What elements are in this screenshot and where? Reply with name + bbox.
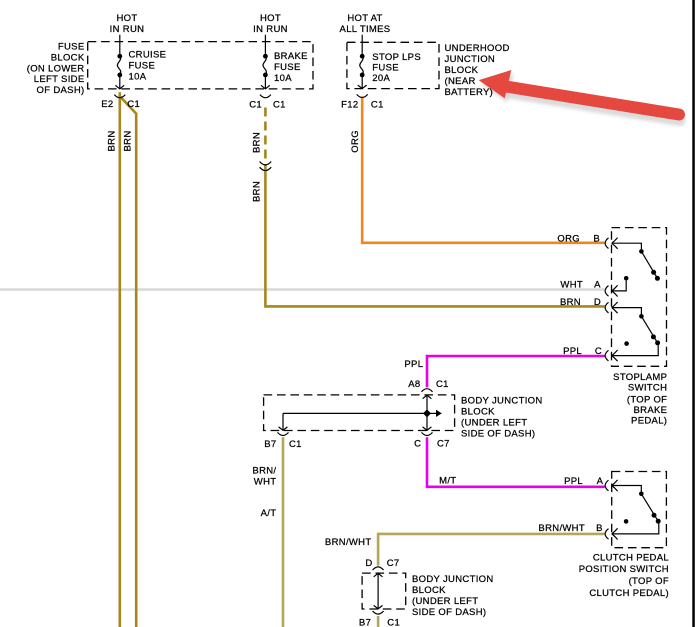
connector cup below stop lps fuse [357,94,368,97]
svg-text:20A: 20A [372,73,390,84]
lever end dot clutch [652,513,657,518]
label ORG vertical [350,130,361,153]
svg-text:CRUISE: CRUISE [129,50,167,61]
svg-text:C: C [595,346,602,357]
bjb2 internal vertical [377,573,379,609]
svg-text:B: B [596,523,603,534]
window border right edge [692,0,695,627]
svg-text:BLOCK: BLOCK [445,65,479,76]
free contact dot clutch [624,519,629,524]
svg-text:UNDERHOOD: UNDERHOOD [445,43,510,54]
wire PPL from bjb1 C to clutch pedal switch pin A [427,437,605,487]
svg-text:WHT: WHT [560,279,583,290]
lever end dot upper [651,270,656,275]
svg-text:PPL: PPL [404,359,423,370]
junction arrow right [430,412,436,414]
svg-text:BRN: BRN [560,297,581,308]
svg-text:M/T: M/T [439,475,456,486]
svg-text:FUSE: FUSE [129,61,156,72]
svg-text:BRN/WHT: BRN/WHT [538,523,585,534]
underhood junction block box (dashed) [347,42,439,88]
stoplamp switch label [613,372,667,426]
fuse CRUISE label [129,50,167,83]
svg-text:B7: B7 [359,618,371,627]
svg-text:C1: C1 [371,100,384,111]
red callout arrow shadow [481,74,680,120]
svg-text:BLOCK: BLOCK [461,406,495,417]
svg-text:BRN: BRN [107,130,118,151]
svg-text:FUSE: FUSE [274,62,301,73]
pivot dot lower switch [639,314,644,319]
svg-text:BRAKE: BRAKE [633,405,667,416]
connector cup above bjb1 [422,389,433,392]
svg-text:C1: C1 [273,100,286,111]
connector cup above bjb2 [373,567,384,570]
svg-text:C1: C1 [127,99,140,110]
label BRN (dashed section) [252,132,263,153]
svg-text:BRN/: BRN/ [252,466,276,477]
arrow out of bjb1 left [279,427,288,431]
svg-text:BLOCK: BLOCK [412,585,446,596]
svg-text:C7: C7 [437,438,450,449]
contact dot lower [655,340,660,345]
bjb1 internal vertical left exit [282,413,284,430]
connector arrow into bjb2 [374,573,383,577]
connector pin A stoplamp [605,285,617,296]
svg-text:C1: C1 [387,618,400,627]
svg-text:HOT: HOT [116,13,137,24]
svg-text:B: B [593,233,600,244]
svg-text:ORG: ORG [350,130,361,153]
svg-text:BATTERY): BATTERY) [445,87,494,98]
svg-text:(TOP OF: (TOP OF [629,576,669,587]
svg-text:D: D [594,297,601,308]
svg-text:10A: 10A [274,73,292,84]
body junction block 1 box (dashed) [264,395,455,431]
free contact dot lower switch [624,341,629,346]
svg-text:C1: C1 [249,100,262,111]
connector pin D stoplamp [605,302,617,313]
switch lever upper [641,251,657,278]
svg-text:LEFT SIDE: LEFT SIDE [34,74,85,85]
svg-text:CLUTCH PEDAL: CLUTCH PEDAL [593,552,669,563]
link from lower contact to pin C [612,345,658,356]
svg-text:C7: C7 [387,558,400,569]
connector cup below brake fuse [260,95,271,98]
label BRN (solid section) [252,181,263,202]
clutch pedal position switch box (dashed) [612,472,667,548]
svg-text:CLUTCH PEDAL): CLUTCH PEDAL) [589,588,669,599]
stoplamp switch fixed contact from pin A [612,281,626,291]
svg-text:F12: F12 [341,100,358,111]
wire WHT from off-page left to stoplamp switch pin A [0,288,605,291]
connector pin B stoplamp [605,238,617,249]
connector arrow out of brake fuse [261,85,270,89]
svg-text:STOP LPS: STOP LPS [372,52,421,63]
svg-text:SIDE OF DASH): SIDE OF DASH) [461,428,535,439]
clutch switch contact from pin A [612,486,642,492]
contact dot pin A [624,276,629,281]
svg-text:BODY JUNCTION: BODY JUNCTION [461,395,543,406]
cup below bjb1 left [278,432,289,435]
wire BRN from cruise fuse E2 straight down [119,92,122,627]
wire BRN/WHT from clutch pin B to bjb2 [378,534,605,566]
fuse STOP LPS FUSE 20A [360,35,365,89]
red callout arrow [479,70,679,115]
stoplamp switch lower contact from pin D [612,308,642,315]
svg-text:IN RUN: IN RUN [110,24,145,35]
wire PPL from stoplamp pin C to body junction block [427,356,605,387]
svg-text:A/T: A/T [261,508,277,519]
fuse BRAKE FUSE 10A [263,35,268,89]
svg-text:BRN/WHT: BRN/WHT [325,537,372,548]
switch lever lower [641,316,657,343]
label BRN wire2 [123,130,134,151]
stoplamp switch upper contact from pin B [612,243,642,249]
svg-text:C: C [414,438,421,449]
connector arrow out of cruise fuse [115,85,124,89]
wire BRN/WHT from bjb1 B7 down (A/T) [282,437,285,627]
svg-text:B7: B7 [264,439,276,450]
svg-text:(UNDER LEFT: (UNDER LEFT [412,596,478,607]
fuse CRUISE FUSE 10A [117,35,122,89]
in-line connector on brake wire [260,162,272,171]
switch lever clutch [641,494,658,521]
svg-text:10A: 10A [129,71,147,82]
pivot dot upper switch [639,249,644,254]
cup below bjb1 mid [422,432,433,435]
svg-text:IN RUN: IN RUN [253,24,288,35]
wire BRN dashed from brake fuse [264,108,267,160]
svg-text:POSITION SWITCH: POSITION SWITCH [579,564,669,575]
junction dot bjb1 [423,409,431,417]
svg-text:E2: E2 [101,99,113,110]
wire BRN from in-line connector to stoplamp pin D [265,164,604,306]
svg-text:JUNCTION: JUNCTION [445,54,496,65]
svg-text:BLOCK: BLOCK [51,52,85,63]
cup below bjb2 [373,611,384,614]
underhood junction block label [445,43,510,98]
svg-text:C1: C1 [436,379,449,390]
svg-text:PPL: PPL [564,476,583,487]
svg-text:SIDE OF DASH): SIDE OF DASH) [412,607,486,618]
svg-text:(NEAR: (NEAR [445,76,476,87]
arrow out of bjb1 mid [423,427,432,431]
label BRN wire1 [107,130,118,151]
svg-text:OF DASH): OF DASH) [37,85,85,96]
connector cup below cruise fuse [114,95,125,98]
svg-text:BRN: BRN [123,130,134,151]
fuse STOP LPS label [372,52,421,84]
svg-text:(TOP OF: (TOP OF [627,394,667,405]
svg-text:BRN: BRN [252,132,263,153]
svg-text:PPL: PPL [563,346,582,357]
svg-text:BRN: BRN [252,181,263,202]
connector pin C stoplamp [605,350,617,361]
lever end dot lower [651,334,656,339]
svg-text:ORG: ORG [557,233,580,244]
svg-text:HOT AT: HOT AT [347,13,382,24]
svg-text:D: D [365,558,372,569]
body junction block 1 label [461,395,543,439]
body junction block 2 box (dashed) [362,573,406,609]
link from clutch contact to pin B [612,523,659,534]
svg-text:BRAKE: BRAKE [274,51,308,62]
contact dot clutch [656,519,661,524]
pivot dot clutch [639,492,644,497]
wire BRN/WHT out of bjb2 [377,616,380,627]
svg-text:HOT: HOT [260,13,281,24]
svg-text:A8: A8 [408,379,420,390]
fuse block label [27,42,85,97]
svg-text:C1: C1 [289,439,302,450]
svg-text:FUSE: FUSE [58,42,85,53]
connector clutch pin A [605,480,617,491]
fuse BRAKE label [274,51,308,84]
bjb1 internal horizontal [283,412,427,414]
wire BRN from cruise fuse C1 angling right then down [120,97,136,627]
svg-text:BODY JUNCTION: BODY JUNCTION [412,574,494,585]
wire ORG from stop lps fuse to stoplamp pin B [362,97,605,243]
connector clutch pin B [605,528,617,539]
svg-text:A: A [597,476,604,487]
stoplamp switch box (dashed) [612,228,667,367]
svg-text:WHT: WHT [254,477,277,488]
contact dot upper [655,276,660,281]
fuse block box (dashed) [88,42,313,89]
arrow out of bjb2 [374,605,383,609]
svg-text:(ON LOWER: (ON LOWER [27,63,85,74]
svg-text:ALL TIMES: ALL TIMES [340,24,391,35]
clutch pedal position switch label [579,552,669,599]
svg-text:(UNDER LEFT: (UNDER LEFT [461,417,527,428]
connector arrow out of stop lps fuse [358,85,367,89]
svg-text:PEDAL): PEDAL) [631,415,667,426]
connector arrow into bjb1 [423,395,432,399]
body junction block 2 label [412,574,494,618]
bjb1 internal vertical at entry [426,395,428,430]
svg-text:SWITCH: SWITCH [628,382,667,393]
svg-text:A: A [594,279,601,290]
